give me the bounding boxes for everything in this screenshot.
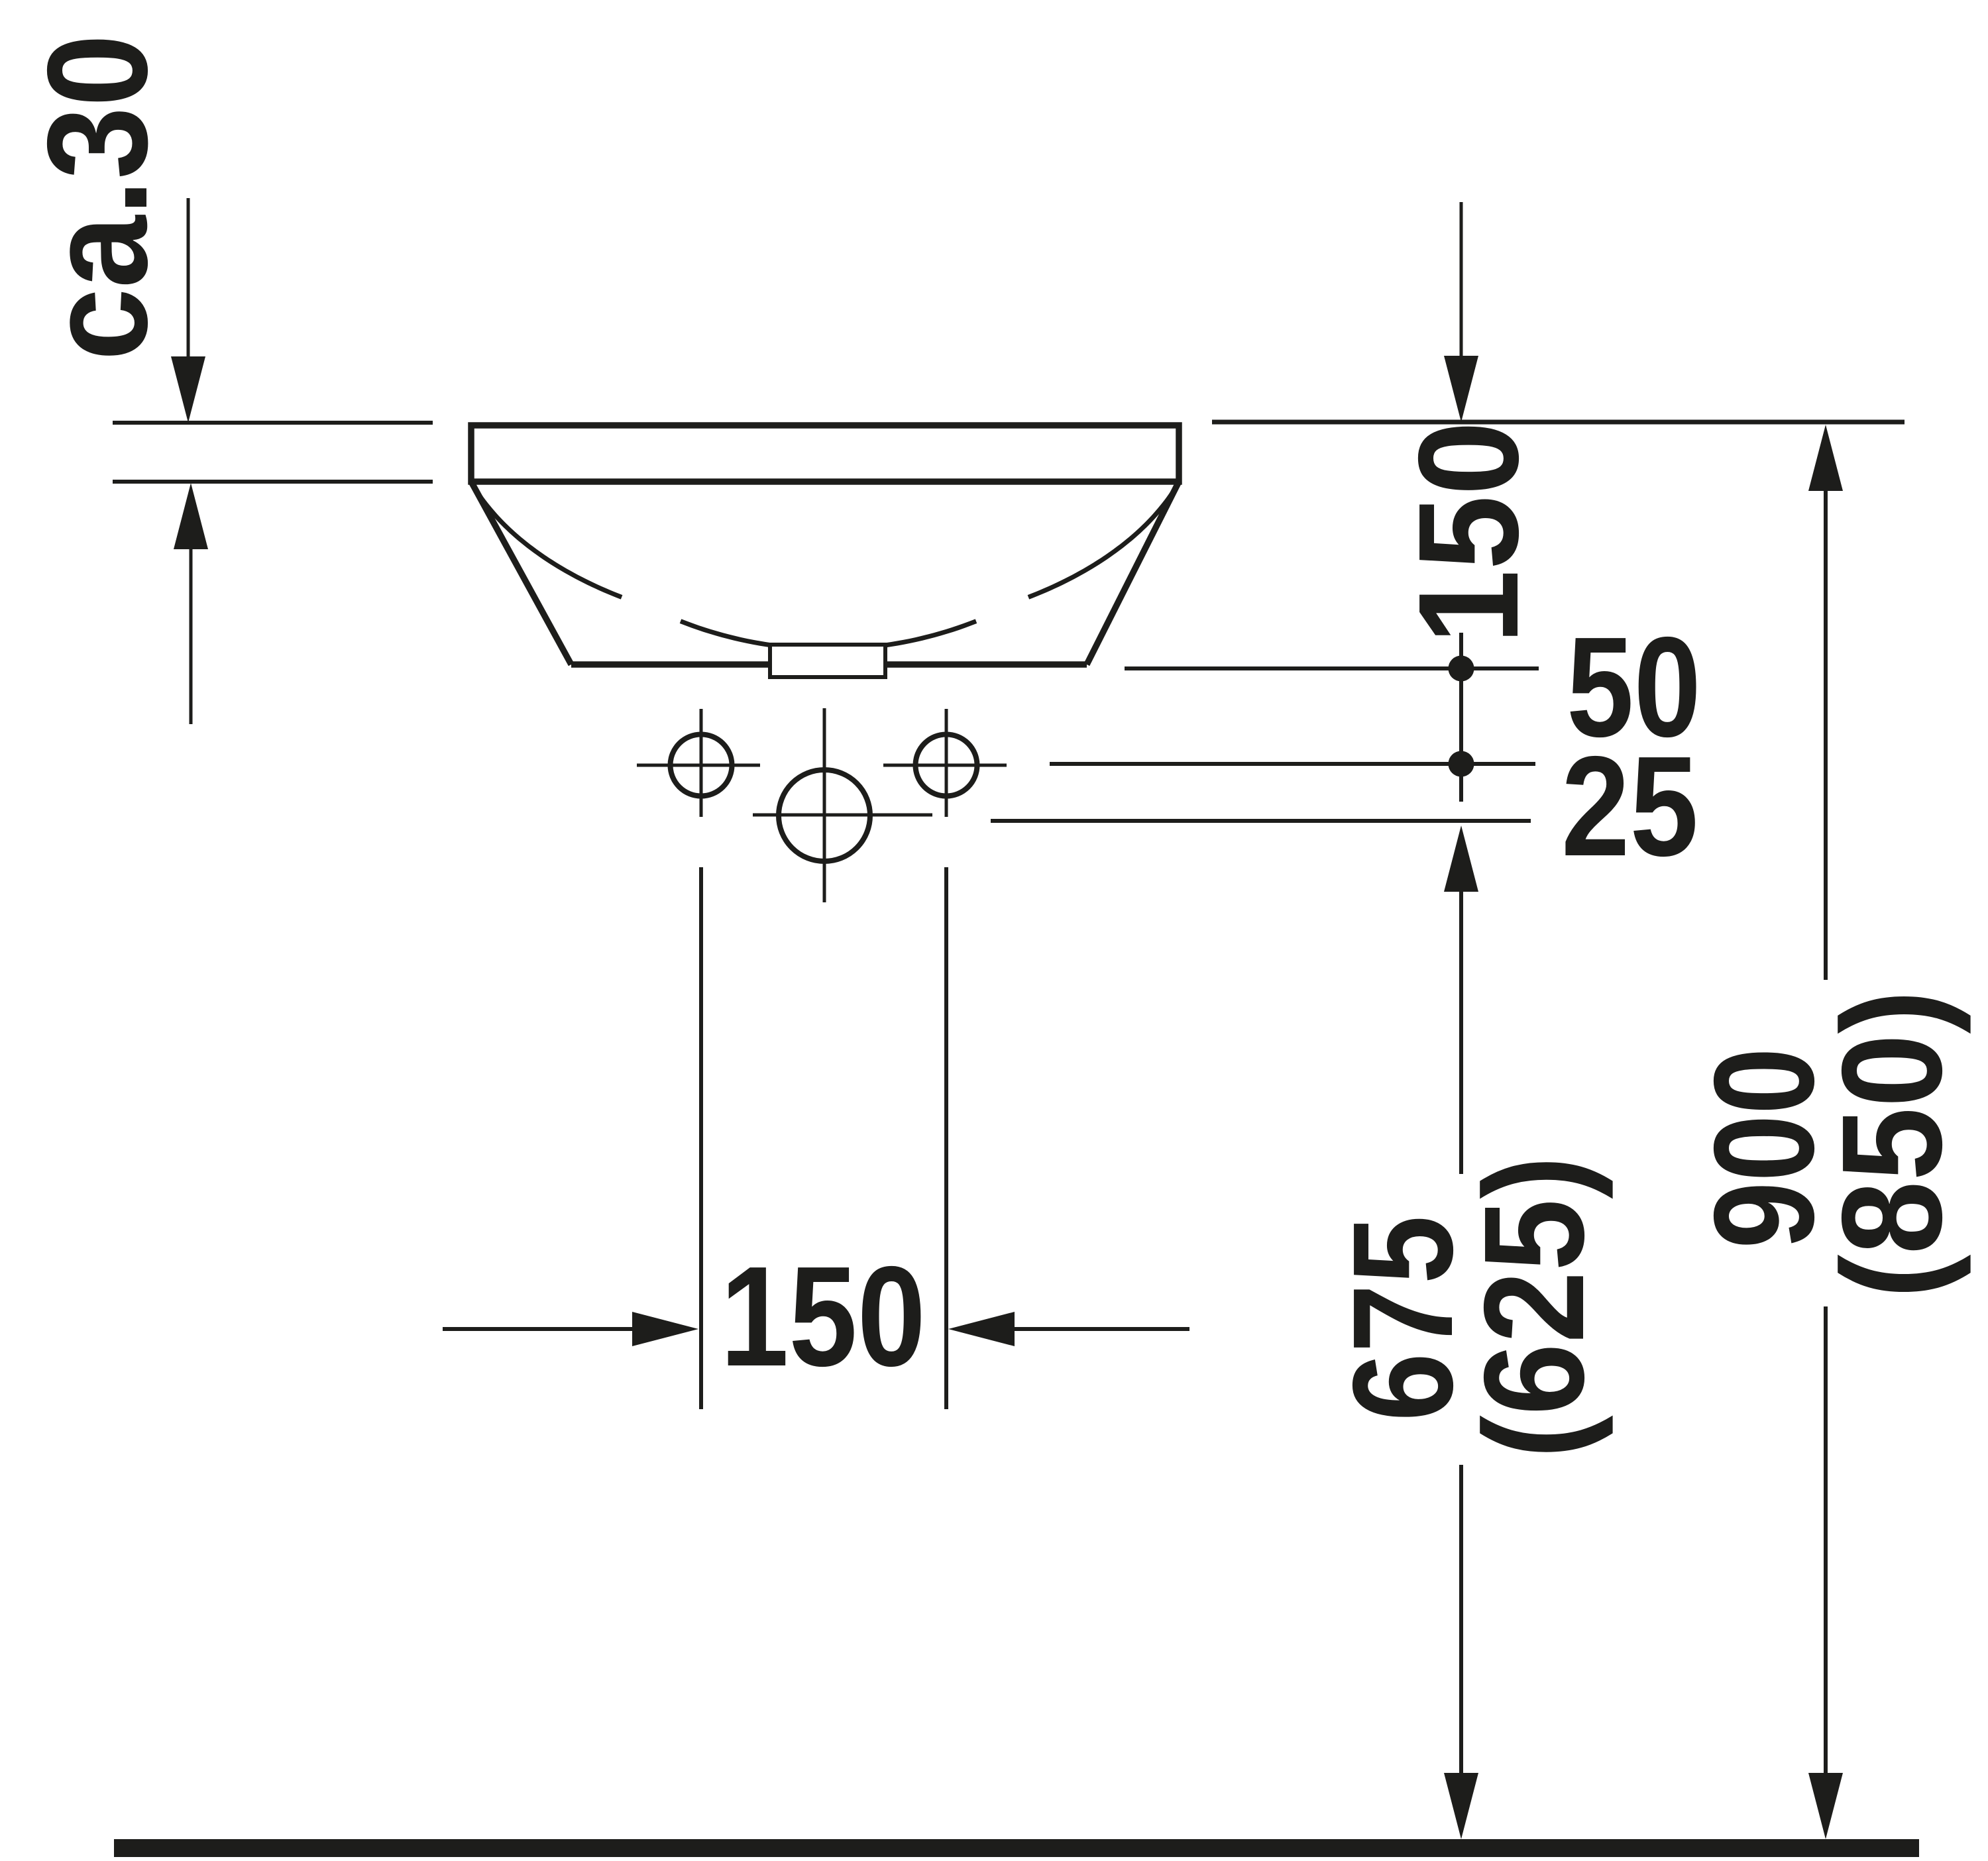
washbasin inner rim right arc bbox=[1028, 485, 1178, 598]
150 horizontal left arrowhead (points right) bbox=[632, 1312, 698, 1346]
extension line from basin bottom edge bbox=[1125, 666, 1539, 670]
svg-text:150: 150 bbox=[720, 1236, 926, 1396]
extension line from center faucet hole axis bbox=[991, 819, 1531, 823]
svg-text:25: 25 bbox=[1561, 726, 1698, 886]
150 dimension arrow shaft (top) bbox=[1460, 202, 1463, 361]
900 dimension line lower segment bbox=[1824, 1306, 1828, 1776]
right faucet hole crosshair vertical bbox=[945, 709, 948, 817]
675 dimension line lower segment bbox=[1459, 1465, 1463, 1776]
extension line from side faucet holes axis bbox=[1050, 762, 1535, 766]
900 dimension line upper segment bbox=[1824, 491, 1828, 980]
drain outlet rectangle bbox=[770, 645, 885, 677]
extension line from right faucet hole down bbox=[944, 867, 948, 1409]
left faucet hole crosshair vertical bbox=[700, 709, 703, 817]
center faucet hole circle bbox=[779, 770, 870, 861]
900 dimension upper arrowhead (points up at rim top line) bbox=[1808, 425, 1843, 491]
datum dot at basin bottom level bbox=[1449, 656, 1474, 682]
washbasin left slant side bbox=[471, 482, 571, 665]
center faucet hole crosshair vertical bbox=[823, 708, 826, 902]
ca.30 upper arrow shaft bbox=[187, 198, 190, 361]
150 horizontal right arrowhead (points left) bbox=[948, 1312, 1015, 1346]
150 horizontal right arrow shaft bbox=[1015, 1327, 1189, 1331]
675 dimension line upper segment bbox=[1459, 892, 1463, 1174]
900 dimension lower arrowhead (points down at floor) bbox=[1808, 1773, 1843, 1839]
floor line bbox=[114, 1839, 1919, 1857]
ca.30 lower arrow shaft bbox=[190, 549, 193, 724]
washbasin rim band rectangle bbox=[471, 425, 1179, 482]
675 dimension lower arrowhead (points down at floor) bbox=[1444, 1773, 1478, 1839]
dimension line segment through datum dots bbox=[1459, 633, 1463, 802]
right faucet hole crosshair horizontal bbox=[883, 764, 1007, 767]
150 dimension arrowhead (points down at rim top line) bbox=[1444, 356, 1478, 422]
left faucet hole crosshair horizontal bbox=[637, 764, 760, 767]
ca.30 upper arrowhead (points down) bbox=[171, 356, 205, 423]
left upper extension line (rim top level) bbox=[113, 421, 433, 425]
svg-text:(850): (850) bbox=[1812, 990, 1971, 1299]
150 horizontal left arrow shaft bbox=[443, 1327, 635, 1331]
top extension line right (rim top level) bbox=[1212, 420, 1905, 425]
675 dimension upper arrowhead (points up) bbox=[1444, 825, 1478, 892]
washbasin sump bottom arc bbox=[681, 621, 976, 649]
datum dot at side holes level bbox=[1449, 751, 1474, 777]
washbasin inner rim left arc bbox=[472, 485, 622, 598]
extension line from left faucet hole down bbox=[699, 867, 703, 1409]
center faucet hole crosshair horizontal bbox=[753, 814, 932, 817]
washbasin right slant side bbox=[1087, 482, 1179, 665]
right faucet hole circle bbox=[916, 735, 977, 796]
ca.30 lower arrowhead (points up) bbox=[174, 483, 208, 549]
svg-text:(625): (625) bbox=[1454, 1156, 1614, 1459]
left lower extension line (rim bottom level) bbox=[113, 480, 433, 484]
svg-text:ca.30: ca.30 bbox=[17, 34, 177, 361]
washbasin bottom edge bbox=[571, 661, 1087, 668]
svg-text:150: 150 bbox=[1388, 421, 1548, 645]
left faucet hole circle bbox=[671, 735, 732, 796]
